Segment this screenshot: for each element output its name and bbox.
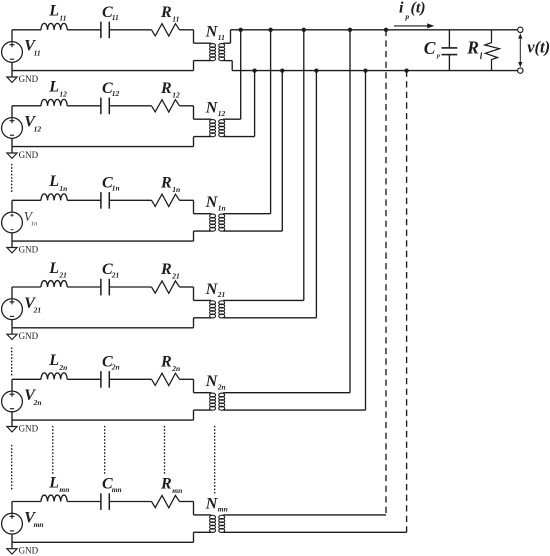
- svg-text:1n: 1n: [218, 203, 226, 212]
- capacitor Cmn: [101, 493, 109, 510]
- label V12: [24, 114, 41, 134]
- capacitor C11: [101, 22, 109, 39]
- wire V12 to L12: [12, 105, 41, 107]
- wire N1n secondary bottom to bottom bus: [281, 71, 283, 232]
- svg-text:R: R: [160, 80, 172, 97]
- svg-text:GND: GND: [19, 245, 39, 255]
- capacitor C_P: [442, 30, 458, 71]
- wire N2n secondary bottom to bottom bus: [365, 71, 367, 411]
- wire C21 to R21: [109, 286, 151, 288]
- label v(t): [527, 38, 550, 57]
- label V2n: [24, 387, 41, 407]
- svg-text:2n: 2n: [217, 382, 226, 391]
- capacitor C12: [101, 98, 109, 115]
- svg-text:GND: GND: [19, 150, 39, 160]
- inductor L21: [41, 281, 67, 287]
- svg-text:21: 21: [171, 272, 180, 281]
- voltage source V2n: [2, 379, 23, 420]
- svg-text:p: p: [404, 12, 409, 21]
- capacitor C1n: [101, 192, 109, 209]
- voltage arrow v(t): [518, 33, 522, 67]
- ellipsis rows 2x continuation (left): [11, 348, 13, 376]
- resistor Rmn: [152, 495, 180, 507]
- junction N21 bottom bus: [314, 68, 318, 72]
- label R12: [160, 80, 180, 100]
- label N12: [205, 100, 226, 118]
- wire bottom bus: [232, 70, 517, 72]
- wire N1n secondary top to top bus: [270, 30, 272, 214]
- svg-text:C: C: [424, 38, 436, 58]
- wire V2n to L2n: [12, 378, 41, 380]
- wire Vmn bottom rail: [12, 541, 194, 543]
- svg-text:mn: mn: [172, 486, 182, 495]
- svg-text:2n: 2n: [58, 363, 67, 372]
- inductor L12: [41, 99, 67, 105]
- svg-text:12: 12: [172, 91, 180, 100]
- svg-text:12: 12: [112, 89, 120, 98]
- wire V12 bottom rail: [12, 146, 194, 148]
- inductor Lmn: [41, 495, 67, 501]
- svg-text:R: R: [160, 4, 172, 21]
- label R1n: [160, 174, 180, 194]
- svg-text:11: 11: [218, 33, 225, 42]
- label R21: [160, 261, 180, 281]
- wire Lmn to Cmn: [67, 501, 101, 503]
- transformer N21: [194, 287, 317, 328]
- wire N12 secondary top to top bus: [240, 30, 242, 119]
- label Rmn: [160, 476, 182, 496]
- svg-text:L: L: [48, 173, 59, 190]
- label V21: [24, 295, 41, 315]
- wire Cmn to Rmn: [109, 501, 151, 503]
- wire L21 to C21: [67, 286, 101, 288]
- junction N2n top bus: [348, 28, 352, 32]
- resistor R21: [152, 281, 180, 293]
- ellipsis column R continuation: [164, 427, 166, 474]
- svg-text:mn: mn: [34, 520, 44, 529]
- wire Nmn secondary top to top bus: [385, 30, 387, 515]
- resistor R11: [152, 24, 180, 36]
- label N1n: [205, 194, 226, 212]
- label R2n: [160, 353, 180, 373]
- capacitor C21: [101, 279, 109, 296]
- resistor R_l: [485, 30, 500, 71]
- wire R2n to N2n: [180, 378, 194, 380]
- terminal top: [518, 27, 523, 32]
- label C2n: [102, 353, 120, 371]
- label C21: [102, 261, 119, 279]
- svg-text:N: N: [205, 373, 219, 390]
- svg-text:L: L: [48, 79, 59, 96]
- wire N2n secondary top to top bus: [349, 30, 351, 393]
- wire L12 to C12: [67, 105, 101, 107]
- svg-text:N: N: [205, 194, 219, 211]
- wire C11 to R11: [109, 29, 151, 31]
- wire V21 to L21: [12, 286, 41, 288]
- wire V21 bottom rail: [12, 327, 194, 329]
- svg-text:11: 11: [172, 15, 179, 24]
- voltage source V21: [2, 287, 23, 328]
- svg-text:(t): (t): [411, 0, 426, 16]
- label Cmn: [102, 476, 122, 494]
- wire Vmn to Lmn: [12, 501, 41, 503]
- junction N1n bottom bus: [280, 68, 284, 72]
- ellipsis column C continuation: [104, 427, 106, 474]
- ground GND row 5: [7, 420, 39, 433]
- junction Nmn top bus: [384, 28, 388, 32]
- svg-text:GND: GND: [19, 331, 39, 341]
- transformer Nmn: [194, 502, 407, 543]
- wire R12 to N12: [180, 105, 194, 107]
- svg-text:P: P: [436, 54, 440, 60]
- svg-text:GND: GND: [19, 424, 39, 434]
- voltage source Vmn: [2, 502, 23, 543]
- ellipsis column N continuation: [214, 427, 216, 495]
- label Lmn: [48, 474, 69, 494]
- wire N21 secondary bottom to bottom bus: [315, 71, 317, 318]
- svg-text:L: L: [48, 3, 59, 20]
- svg-text:v(t): v(t): [527, 38, 550, 57]
- junction N1n top bus: [268, 28, 272, 32]
- wire R11 to N11: [180, 29, 194, 31]
- label L1n: [48, 173, 67, 193]
- label V11: [24, 38, 40, 58]
- svg-text:1n: 1n: [112, 184, 120, 193]
- voltage source V1n: [2, 200, 23, 241]
- svg-text:21: 21: [58, 271, 67, 280]
- ground GND row 3: [7, 241, 39, 254]
- svg-text:N: N: [205, 24, 219, 41]
- wire V1n to L1n: [12, 199, 41, 201]
- svg-text:11: 11: [34, 48, 41, 57]
- label R11: [160, 4, 179, 24]
- junction Nmn bottom bus: [404, 68, 408, 72]
- resistor R2n: [152, 373, 180, 385]
- svg-text:L: L: [48, 260, 59, 277]
- label L2n: [48, 352, 67, 372]
- transformer N1n: [194, 200, 283, 241]
- terminal bottom: [518, 68, 523, 73]
- junction N12 bottom bus: [252, 68, 256, 72]
- ground GND row 4: [7, 328, 39, 341]
- voltage source V12: [2, 106, 23, 147]
- svg-text:mn: mn: [59, 485, 69, 494]
- resistor R1n: [152, 194, 180, 206]
- svg-text:R: R: [160, 476, 172, 493]
- label C1n: [102, 174, 120, 192]
- wire C1n to R1n: [109, 199, 151, 201]
- svg-text:1n: 1n: [172, 185, 180, 194]
- wire Nmn secondary bottom to bottom bus: [406, 71, 408, 533]
- svg-text:N: N: [205, 495, 219, 512]
- wire V11 to L11: [12, 29, 41, 31]
- label C11: [102, 4, 119, 22]
- label N21: [205, 281, 226, 299]
- junction N12 top bus: [239, 28, 243, 32]
- svg-text:R: R: [160, 353, 172, 370]
- wire L11 to C11: [67, 29, 101, 31]
- label N2n: [205, 373, 226, 391]
- label C12: [102, 80, 119, 98]
- svg-text:1n: 1n: [59, 184, 67, 193]
- wire L2n to C2n: [67, 378, 101, 380]
- voltage source V11: [2, 30, 23, 71]
- wire C12 to R12: [109, 105, 151, 107]
- ground GND row 1: [7, 71, 39, 84]
- resistor R12: [152, 100, 180, 112]
- svg-text:N: N: [205, 281, 219, 298]
- svg-text:2n: 2n: [111, 363, 120, 372]
- current arrow i_p(t): [394, 23, 434, 28]
- svg-text:1n: 1n: [31, 221, 38, 228]
- wire R21 to N21: [180, 286, 194, 288]
- wire N21 secondary top to top bus: [303, 30, 305, 301]
- svg-text:11: 11: [59, 14, 66, 23]
- label V1n: [24, 209, 38, 228]
- transformer N11: [194, 30, 233, 71]
- svg-text:12: 12: [34, 124, 42, 133]
- label L12: [48, 79, 67, 99]
- wire N12 secondary bottom to bottom bus: [254, 71, 256, 137]
- svg-text:mn: mn: [218, 505, 228, 514]
- wire C2n to R2n: [109, 378, 151, 380]
- svg-text:L: L: [48, 474, 59, 491]
- label Nmn: [205, 495, 228, 513]
- svg-text:2n: 2n: [171, 364, 180, 373]
- ground GND row 2: [7, 147, 39, 160]
- svg-text:12: 12: [59, 90, 67, 99]
- wire Rmn to Nmn: [180, 501, 194, 503]
- svg-text:GND: GND: [19, 546, 39, 556]
- wire L1n to C1n: [67, 199, 101, 201]
- capacitor C2n: [101, 371, 109, 388]
- junction N21 top bus: [302, 28, 306, 32]
- svg-text:R: R: [160, 174, 172, 191]
- wire N11 secondary top to top bus: [230, 30, 232, 43]
- junction N2n bottom bus: [363, 68, 367, 72]
- svg-text:2n: 2n: [33, 398, 42, 407]
- inductor L11: [41, 23, 67, 29]
- label N11: [205, 24, 225, 42]
- ellipsis rows 1x continuation (left): [11, 165, 13, 192]
- inductor L1n: [41, 194, 67, 200]
- label i_p(t): [399, 0, 426, 21]
- svg-text:21: 21: [33, 306, 42, 315]
- wire N11 secondary bottom to bottom bus: [231, 61, 233, 71]
- svg-text:mn: mn: [112, 485, 122, 494]
- wire V11 bottom rail: [12, 70, 194, 72]
- wire top bus: [231, 29, 518, 31]
- wire R1n to N1n: [180, 199, 194, 201]
- svg-text:L: L: [48, 352, 59, 369]
- svg-text:i: i: [399, 0, 404, 16]
- label L21: [48, 260, 67, 280]
- label Vmn: [24, 509, 43, 529]
- transformer N2n: [194, 379, 366, 420]
- ellipsis rows mn continuation (left): [11, 446, 13, 492]
- wire V2n bottom rail: [12, 419, 194, 421]
- svg-text:N: N: [205, 100, 219, 117]
- inductor L2n: [41, 373, 67, 379]
- svg-text:GND: GND: [19, 74, 39, 84]
- ellipsis column L continuation: [52, 427, 54, 474]
- ground GND row 6: [7, 542, 39, 555]
- svg-text:21: 21: [217, 290, 226, 299]
- label R_l: [466, 38, 482, 61]
- svg-text:R: R: [160, 261, 172, 278]
- svg-text:11: 11: [112, 13, 119, 22]
- wire V1n bottom rail: [12, 240, 194, 242]
- svg-text:21: 21: [111, 270, 120, 279]
- svg-text:12: 12: [218, 109, 226, 118]
- label L11: [48, 3, 66, 23]
- label C_P: [424, 38, 441, 61]
- transformer N12: [194, 106, 255, 147]
- svg-text:R: R: [466, 38, 479, 58]
